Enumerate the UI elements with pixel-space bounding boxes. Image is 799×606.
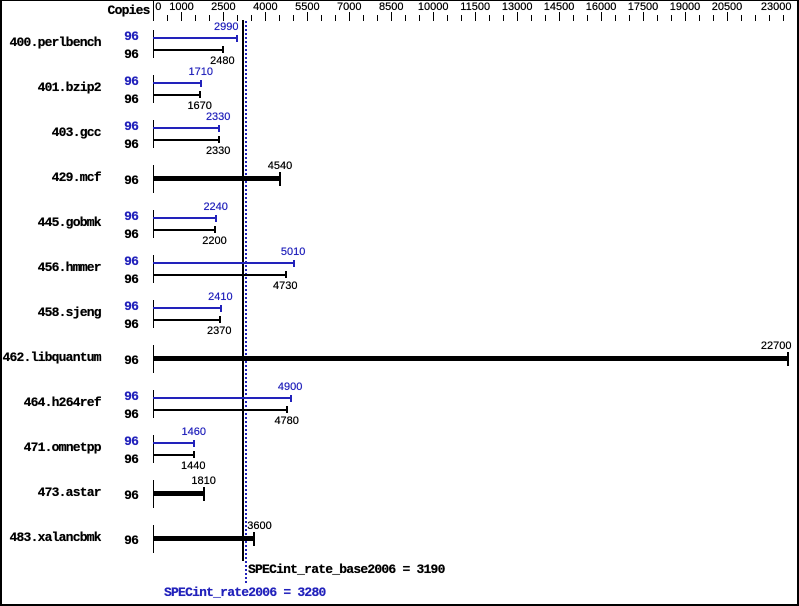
axis label 8500: [361, 2, 421, 13]
base bar end cap: [218, 136, 220, 143]
base value label 2480: [192, 56, 252, 67]
value label 22700: [732, 341, 792, 352]
peak bar 400.perlbench = 2990: [153, 37, 238, 39]
peak bar end cap: [193, 440, 195, 447]
axis label 5500: [277, 2, 337, 13]
peak bar end cap: [200, 80, 202, 87]
copies label 96 (base row): [117, 49, 138, 60]
copies label 96 (base row): [117, 139, 138, 150]
copies label 96 (peak row): [117, 211, 138, 222]
bar start line: [153, 75, 155, 103]
base bar end cap: [193, 451, 195, 458]
base value label 1670: [170, 101, 230, 112]
label 429.mcf: [0, 172, 101, 183]
base bar end cap: [214, 226, 216, 233]
bar start line: [153, 165, 155, 193]
value label 4540: [250, 161, 310, 172]
base value label 4730: [255, 281, 315, 292]
copies label 96 (base row): [117, 319, 138, 330]
peak bar end cap: [218, 125, 220, 132]
peak value label 2330: [188, 112, 248, 123]
peak bar end cap: [290, 395, 292, 402]
base value label 1440: [163, 461, 223, 472]
axis label 17500: [613, 2, 673, 13]
base bar end cap: [222, 46, 224, 53]
base bar 471.omnetpp = 1440: [153, 454, 195, 456]
SPECint_rate2006 median line (3280, dotted blue): [245, 21, 247, 584]
footer: SPECint_rate_base2006 = 3190: [248, 564, 445, 575]
copies label 96 (peak row): [117, 31, 138, 42]
base value label 4780: [257, 416, 317, 427]
bar start line: [153, 210, 155, 238]
peak bar 464.h264ref = 4900: [153, 397, 292, 399]
base bar 456.hmmer = 4730: [153, 274, 287, 276]
base bar 464.h264ref = 4780: [153, 409, 288, 411]
combined base bar 462.libquantum = 22700: [153, 356, 789, 361]
header/axis separator line: [153, 0, 155, 21]
base bar end cap: [219, 316, 221, 323]
combined base bar 473.astar = 1810: [153, 491, 205, 496]
bar end cap: [787, 352, 789, 366]
label 445.gobmk: [0, 217, 101, 228]
bar start line: [153, 480, 155, 508]
axis label 20500: [697, 2, 757, 13]
base bar end cap: [286, 406, 288, 413]
label 458.sjeng: [0, 307, 101, 318]
label 401.bzip2: [0, 82, 101, 93]
bar start line: [153, 525, 155, 553]
axis label 19000: [655, 2, 715, 13]
bar end cap: [253, 532, 255, 546]
base value label 2200: [185, 236, 245, 247]
peak value label 2240: [186, 202, 246, 213]
base value label 2330: [188, 146, 248, 157]
peak bar 445.gobmk = 2240: [153, 217, 217, 219]
base bar 445.gobmk = 2200: [153, 229, 216, 231]
peak value label 2410: [190, 292, 250, 303]
axis label 13000: [487, 2, 547, 13]
copies label 96 (base row): [117, 229, 138, 240]
axis label 1000: [152, 2, 212, 13]
bar start line: [153, 390, 155, 418]
copies label 96 (peak row): [117, 76, 138, 87]
label 462.libquantum: [0, 352, 101, 363]
bar start line: [153, 30, 155, 58]
axis label 10000: [403, 2, 463, 13]
base value label 2370: [189, 326, 249, 337]
combined base bar 429.mcf = 4540: [153, 176, 281, 181]
chart frame right border: [797, 0, 799, 606]
label 464.h264ref: [0, 397, 101, 408]
value label 3600: [247, 521, 271, 532]
copies label 96 (base row): [117, 274, 138, 285]
axis label 16000: [571, 2, 631, 13]
peak bar 401.bzip2 = 1710: [153, 82, 203, 84]
SPECint_rate_base2006 median line (3190, solid black): [242, 20, 244, 561]
peak bar 403.gcc = 2330: [153, 127, 220, 129]
copies label 96 (peak row): [117, 436, 138, 447]
axis label 4000: [235, 2, 295, 13]
combined base bar 483.xalancbmk = 3600: [153, 536, 255, 541]
axis label 23000: [732, 2, 792, 13]
copies label 96: [117, 175, 138, 186]
chart frame top border: [0, 0, 799, 1]
bar start line: [153, 435, 155, 463]
base bar 458.sjeng = 2370: [153, 319, 221, 321]
copies label 96 (base row): [117, 94, 138, 105]
bar end cap: [203, 487, 205, 501]
copies label 96: [117, 490, 138, 501]
copies label 96 (peak row): [117, 391, 138, 402]
peak value label 1710: [171, 67, 231, 78]
peak bar end cap: [220, 305, 222, 312]
copies label 96 (peak row): [117, 121, 138, 132]
axis label 14500: [529, 2, 589, 13]
label 403.gcc: [0, 127, 101, 138]
peak bar 456.hmmer = 5010: [153, 262, 295, 264]
base bar end cap: [199, 91, 201, 98]
peak bar end cap: [215, 215, 217, 222]
label 400.perlbench: [0, 37, 101, 48]
label 471.omnetpp: [0, 442, 101, 453]
peak bar 458.sjeng = 2410: [153, 307, 222, 309]
value label 1810: [174, 476, 234, 487]
peak bar end cap: [293, 260, 295, 267]
copies label 96 (base row): [117, 409, 138, 420]
peak value label 5010: [263, 247, 323, 258]
x axis tick marks: [153, 12, 154, 21]
chart frame left border: [0, 0, 2, 606]
axis label 7000: [319, 2, 379, 13]
base bar 401.bzip2 = 1670: [153, 94, 201, 96]
label 483.xalancbmk: [0, 532, 101, 543]
base bar end cap: [285, 271, 287, 278]
axis label 0: [155, 2, 161, 13]
header label "Copies": [0, 5, 150, 16]
footer: SPECint_rate2006 = 3280: [164, 587, 326, 598]
base bar 400.perlbench = 2480: [153, 49, 224, 51]
bar start line: [153, 120, 155, 148]
copies label 96 (peak row): [117, 301, 138, 312]
label 473.astar: [0, 487, 101, 498]
copies label 96: [117, 355, 138, 366]
bar start line: [153, 300, 155, 328]
copies label 96 (base row): [117, 454, 138, 465]
peak value label 4900: [260, 382, 320, 393]
axis label 11500: [445, 2, 505, 13]
peak bar end cap: [236, 35, 238, 42]
peak value label 1460: [164, 427, 224, 438]
peak value label 2990: [179, 22, 239, 33]
copies label 96 (peak row): [117, 256, 138, 267]
bar start line: [153, 345, 155, 373]
base bar 403.gcc = 2330: [153, 139, 220, 141]
chart frame bottom border: [0, 604, 799, 606]
copies label 96: [117, 535, 138, 546]
peak bar 471.omnetpp = 1460: [153, 442, 196, 444]
label 456.hmmer: [0, 262, 101, 273]
bar start line: [153, 255, 155, 283]
axis label 2500: [193, 2, 253, 13]
bar end cap: [279, 172, 281, 186]
